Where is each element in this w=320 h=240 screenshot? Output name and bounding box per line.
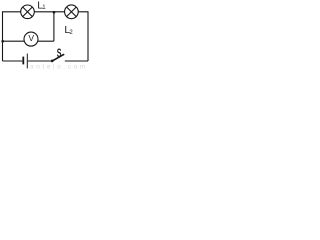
wire bottom-left segment [3,60,23,62]
lamp L1 [21,5,35,19]
wire top middle segment [34,11,64,13]
lamp L2 [65,5,79,19]
label L2 [64,24,73,36]
label L1 [37,0,46,11]
wire top-left segment [3,12,21,61]
svg-text:antelo.com: antelo.com [30,64,88,69]
voltmeter U1 circle [24,32,38,46]
wire voltmeter right horizontal [38,40,54,42]
battery cell negative short plate [22,57,24,65]
svg-text:V: V [28,33,34,43]
switch S pivot node [51,60,54,63]
wire battery to switch [28,60,51,62]
wire voltmeter vertical riser [53,12,55,41]
wire voltmeter left horizontal [3,40,25,42]
wire top-right segment [78,12,88,61]
switch S blade [52,54,64,61]
battery cell positive long plate [26,54,28,69]
node junction top (voltmeter tap between lamps) [53,11,56,14]
wire switch to right corner [65,60,88,62]
node junction left wall [1,40,4,43]
svg-text:S: S [57,48,62,60]
